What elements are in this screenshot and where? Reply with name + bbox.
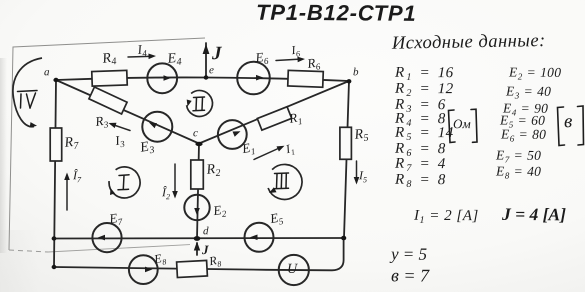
- svg-text:J = 4 [А]: J = 4 [А]: [501, 204, 566, 224]
- svg-text:a: a: [44, 66, 50, 78]
- svg-text:Ом: Ом: [453, 116, 471, 131]
- svg-text:E3​ = 40: E3​ = 40: [505, 83, 551, 100]
- svg-text:c: c: [193, 127, 198, 139]
- svg-text:d: d: [203, 225, 209, 237]
- svg-text:e: e: [209, 64, 214, 76]
- svg-text:U: U: [287, 262, 298, 277]
- svg-text:E6​ = 80: E6​ = 80: [500, 126, 546, 143]
- svg-text:J: J: [211, 43, 222, 64]
- svg-text:в = 7: в = 7: [391, 265, 430, 285]
- svg-text:b: b: [353, 66, 359, 78]
- svg-text:E2​ = 100: E2​ = 100: [508, 64, 561, 81]
- svg-text:R8​ = 8: R8​ = 8: [394, 172, 446, 190]
- svg-text:E8​ = 40: E8​ = 40: [495, 163, 541, 180]
- svg-text:у = 5: у = 5: [389, 244, 427, 263]
- svg-text:Исходные данные:: Исходные данные:: [391, 31, 546, 54]
- svg-text:J: J: [201, 242, 209, 257]
- svg-text:E7​ = 50: E7​ = 50: [495, 147, 541, 164]
- svg-text:ТР1-В12-СТР1: ТР1-В12-СТР1: [256, 0, 417, 26]
- svg-text:в: в: [564, 111, 572, 132]
